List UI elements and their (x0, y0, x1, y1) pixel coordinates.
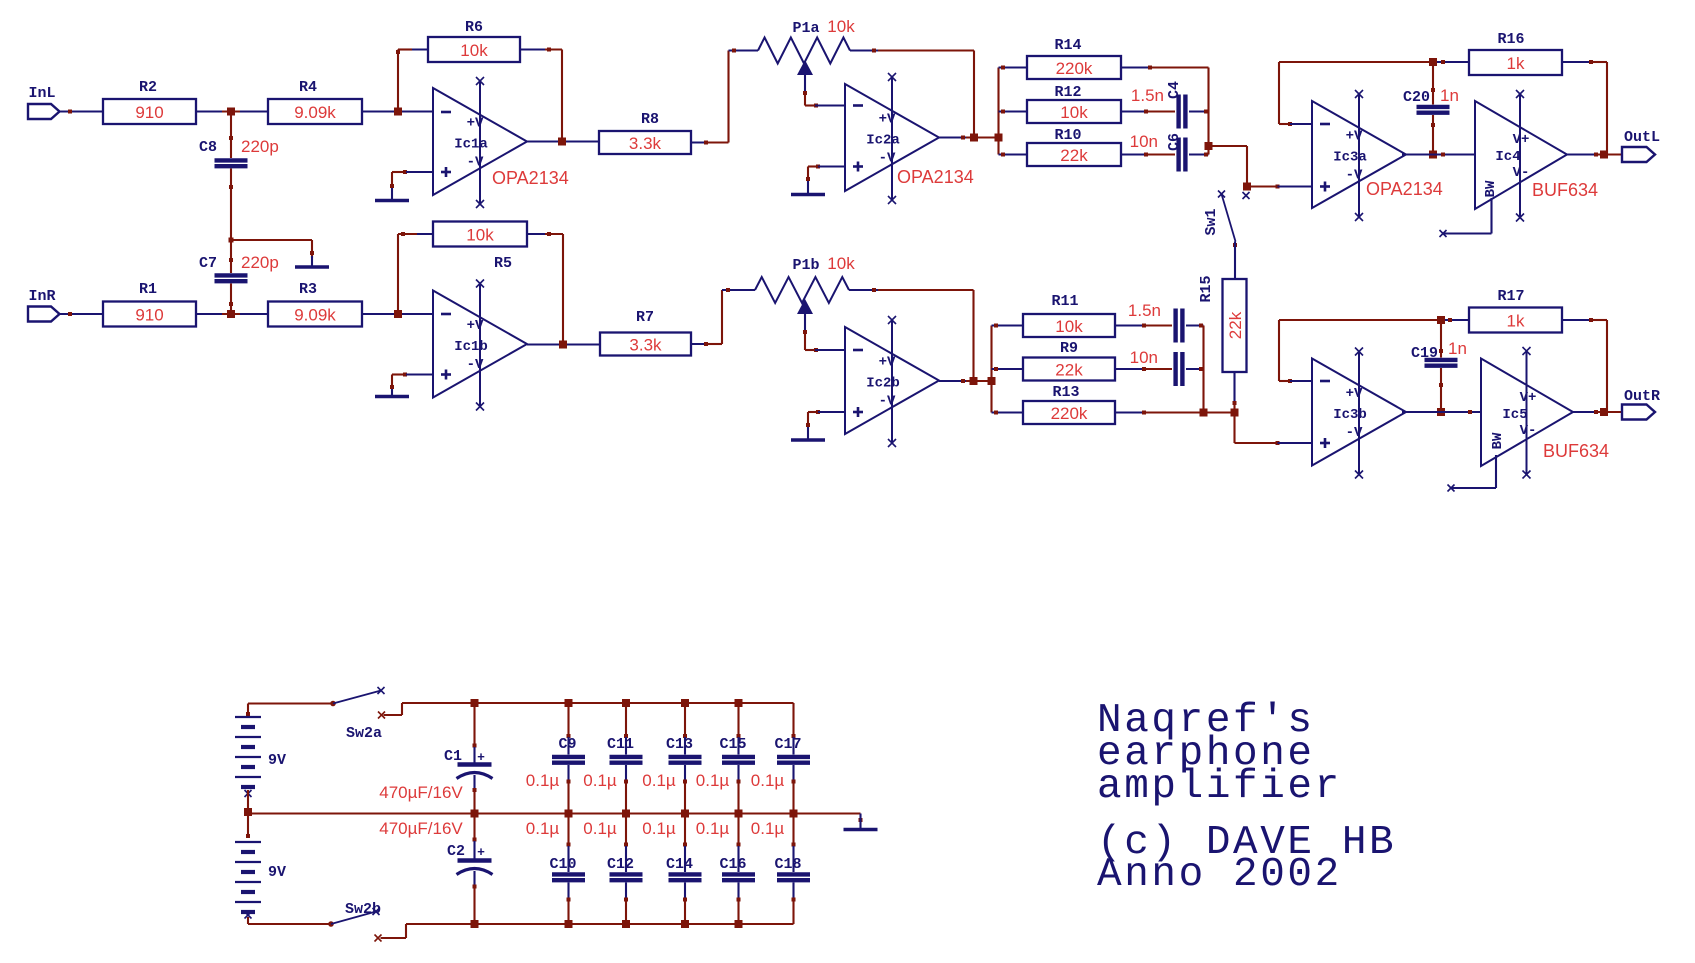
svg-text:-V: -V (879, 151, 896, 167)
svg-text:Ic1b: Ic1b (454, 339, 488, 355)
wire bus to R13 (992, 411, 1024, 415)
wire R2 to node L1 (196, 110, 268, 112)
svg-text:V+: V+ (1513, 132, 1530, 148)
connector InR (28, 288, 60, 322)
node R17 left junction (1437, 316, 1445, 324)
resistor R4 (268, 79, 362, 124)
svg-text:470µF/16V: 470µF/16V (379, 819, 463, 838)
value OPA2134 for Ic1 (492, 168, 569, 188)
op-amp Ic3b (1312, 348, 1406, 479)
switch Sw2a (330, 687, 385, 742)
wire R9 to cap 10n (1115, 367, 1172, 371)
svg-text:R8: R8 (641, 111, 659, 128)
svg-text:Ic5: Ic5 (1502, 407, 1527, 423)
wire Ic1a output (527, 140, 599, 142)
wire Ic3b output to Ic5 (1402, 410, 1481, 414)
wire B2 to Sw2b (248, 923, 331, 925)
capacitor C11 0.1u (583, 699, 642, 814)
svg-text:3.3k: 3.3k (629, 134, 662, 153)
svg-text:OPA2134: OPA2134 (1366, 179, 1443, 199)
value BUF634 for Ic5 (1543, 441, 1609, 461)
wire ground to Ic1a plus (392, 170, 433, 186)
wire C6 right (1189, 153, 1209, 157)
wire C7 to node R1 (229, 284, 233, 315)
resistor R7 (600, 309, 691, 356)
capacitor C2 470uF (379, 814, 492, 925)
wire ground to Ic2b plus (808, 410, 845, 425)
node Ic2a out junction (970, 134, 978, 142)
svg-text:Ic3b: Ic3b (1333, 407, 1367, 423)
node OutR junction (1600, 408, 1608, 416)
svg-text:+V: +V (1346, 129, 1363, 145)
svg-text:10k: 10k (827, 17, 855, 36)
node R16 left junction (1429, 58, 1437, 66)
wire R17 right feedback (1562, 318, 1607, 412)
capacitor C14 0.1u (642, 814, 701, 925)
node bottom rail col C16 (735, 920, 743, 928)
capacitor C16 0.1u (696, 814, 755, 925)
svg-text:910: 910 (135, 103, 163, 122)
wire Ic2b output (939, 379, 992, 383)
svg-text:C1: C1 (444, 748, 462, 765)
svg-text:0.1µ: 0.1µ (526, 771, 560, 790)
wire mid node to ground (229, 238, 315, 259)
svg-text:0.1µ: 0.1µ (642, 771, 676, 790)
svg-text:1k: 1k (1507, 54, 1525, 73)
capacitor C15 0.1u (696, 699, 755, 814)
svg-text:C16: C16 (719, 856, 746, 873)
wire C19 bottom (1439, 368, 1443, 412)
svg-text:Ic2a: Ic2a (866, 133, 900, 149)
svg-text:C19: C19 (1411, 345, 1438, 362)
svg-text:C15: C15 (719, 736, 746, 753)
wire bank L bus (997, 68, 999, 155)
wire mid rail (248, 812, 861, 814)
svg-text:Ic2b: Ic2b (866, 376, 900, 392)
wire R15 bottom (1233, 372, 1237, 413)
svg-text:R16: R16 (1497, 31, 1524, 48)
node R15 bottom junction (1231, 409, 1239, 417)
svg-text:-V: -V (1346, 168, 1363, 184)
value OPA2134 for Ic2 (897, 167, 974, 187)
svg-text:910: 910 (135, 306, 163, 325)
wire node to Ic3a plus (1247, 185, 1312, 189)
node R1 junction (227, 310, 235, 318)
wire R12 to C4 (1121, 110, 1175, 114)
wire bus to R10 (999, 153, 1028, 157)
wire R10 to C6 (1121, 153, 1175, 157)
wire P1a right to Ic2a output feedback (878, 51, 974, 138)
ground mid rail (844, 814, 878, 830)
wire Ic5 output (1573, 410, 1622, 414)
svg-text:R7: R7 (636, 309, 654, 326)
svg-text:OutL: OutL (1624, 129, 1660, 146)
svg-text:C10: C10 (549, 856, 576, 873)
svg-text:+V: +V (467, 318, 484, 334)
svg-text:OutR: OutR (1624, 388, 1660, 405)
svg-text:10k: 10k (827, 254, 855, 273)
wire junction to R17 (1445, 318, 1469, 322)
svg-text:C7: C7 (199, 255, 217, 272)
svg-text:C20: C20 (1403, 89, 1430, 106)
switch Sw2b (328, 901, 381, 942)
svg-text:220p: 220p (241, 137, 279, 156)
wire P1a wiper to Ic2a minus (805, 95, 845, 108)
svg-text:R15: R15 (1198, 275, 1215, 302)
ground at Ic2a plus (791, 177, 825, 195)
wire Sw1 to R15 (1234, 242, 1236, 280)
svg-text:amplifier: amplifier (1097, 764, 1342, 810)
wire R6 left feedback (396, 50, 428, 112)
svg-text:1k: 1k (1507, 312, 1525, 331)
svg-text:V-: V- (1520, 423, 1537, 439)
svg-text:Sw1: Sw1 (1203, 208, 1220, 235)
svg-text:Ic1a: Ic1a (454, 137, 488, 153)
wire R11 to cap 1.5n (1115, 324, 1172, 328)
wire R3 to Ic1b minus (362, 313, 433, 315)
Ic4 BW pin (1440, 198, 1492, 237)
svg-text:0.1µ: 0.1µ (583, 771, 617, 790)
wire corner to Ic3b plus (1235, 413, 1313, 446)
node bank L bus junction (995, 134, 1003, 142)
capacitor C6 (1130, 132, 1186, 172)
wire R14 right (1121, 66, 1209, 70)
resistor R1 (103, 281, 196, 327)
node bottom rail C2 junction (471, 920, 479, 928)
svg-text:220p: 220p (241, 253, 279, 272)
svg-text:V-: V- (1513, 165, 1530, 181)
svg-text:10k: 10k (1055, 317, 1083, 336)
svg-text:0.1µ: 0.1µ (526, 819, 560, 838)
svg-text:+: + (477, 845, 485, 860)
svg-text:InL: InL (28, 85, 55, 102)
wire bank R right bus (1202, 326, 1204, 413)
svg-text:+V: +V (879, 112, 896, 128)
svg-text:C6: C6 (1166, 133, 1183, 151)
resistor R10 (1027, 127, 1121, 166)
node Ic1a minus junction (394, 108, 402, 116)
ground near C7 (295, 256, 329, 267)
resistor R12 (1027, 84, 1121, 123)
value OPA2134 for Ic3 (1366, 179, 1443, 199)
wire InL to R2 (60, 110, 104, 114)
potentiometer P1b (722, 254, 878, 303)
P1a wiper (797, 60, 813, 95)
op-amp Ic3a (1312, 90, 1406, 221)
svg-text:R10: R10 (1054, 127, 1081, 144)
svg-text:10k: 10k (466, 226, 494, 245)
wire R1 to node R1 (196, 313, 268, 315)
wire Sw2b to bottom rail (381, 924, 407, 938)
svg-text:C14: C14 (666, 856, 693, 873)
node Ic1b out junction (559, 341, 567, 349)
resistor R14 (1027, 37, 1121, 79)
Ic5 BW pin (1448, 455, 1497, 492)
resistor R15 (1198, 275, 1247, 372)
svg-text:Sw2b: Sw2b (345, 901, 381, 918)
wire Ic3b minus feedback rail (1279, 320, 1437, 383)
svg-text:220k: 220k (1056, 59, 1093, 78)
svg-text:+: + (477, 750, 485, 765)
wire R5 left feedback (398, 232, 433, 314)
wire cap to bank R right bus upper (1186, 324, 1204, 328)
svg-text:+V: +V (879, 355, 896, 371)
svg-text:C18: C18 (774, 856, 801, 873)
capacitor C1 470uF (379, 703, 492, 814)
node Sw1 top junction (1243, 183, 1251, 191)
op-amp Ic2a (845, 73, 939, 204)
op-amp Ic1a (433, 77, 527, 208)
resistor R3 (268, 281, 362, 327)
svg-text:22k: 22k (1226, 311, 1245, 339)
wire C4 right (1189, 110, 1209, 114)
svg-text:3.3k: 3.3k (629, 336, 662, 355)
svg-text:R4: R4 (299, 79, 317, 96)
wire bottom rail (406, 923, 794, 925)
battery B1 9V (235, 704, 286, 813)
svg-text:0.1µ: 0.1µ (583, 819, 617, 838)
wire bus to R9 (992, 367, 1024, 371)
wire R8 to P1a (691, 51, 729, 145)
wire bank L right bus (1207, 68, 1209, 155)
svg-text:BW: BW (1490, 432, 1506, 449)
svg-text:P1a: P1a (792, 20, 819, 37)
wire ground to Ic1b plus (392, 373, 433, 388)
svg-text:BW: BW (1483, 180, 1499, 197)
node mid rail col C17 (790, 810, 798, 818)
capacitor C8 (199, 112, 279, 167)
svg-text:Sw2a: Sw2a (346, 725, 382, 742)
capacitor C17 0.1u (751, 703, 810, 814)
wire to Ic3b plus (1204, 411, 1235, 413)
svg-text:9V: 9V (268, 752, 286, 769)
node Ic2b out junction (970, 377, 978, 385)
svg-text:+V: +V (1346, 386, 1363, 402)
P1b wiper (797, 299, 813, 334)
wire Ic3a minus feedback rail (1279, 62, 1429, 126)
svg-text:Ic3a: Ic3a (1333, 150, 1367, 166)
svg-text:R2: R2 (139, 79, 157, 96)
capacitor C19 (1411, 320, 1467, 366)
svg-text:R13: R13 (1052, 384, 1079, 401)
buffer Ic5 BUF634 (1481, 347, 1573, 479)
resistor R9 (1023, 340, 1115, 381)
svg-text:R1: R1 (139, 281, 157, 298)
svg-text:10n: 10n (1130, 132, 1158, 151)
svg-text:R6: R6 (465, 19, 483, 36)
wire Ic1b output (527, 343, 600, 345)
node OutL junction (1600, 151, 1608, 159)
svg-text:1n: 1n (1448, 339, 1467, 358)
wire C20 bottom (1431, 115, 1435, 155)
connector InL (28, 85, 60, 119)
resistor R13 (1023, 384, 1115, 424)
svg-text:C11: C11 (607, 736, 634, 753)
svg-text:BUF634: BUF634 (1532, 180, 1598, 200)
svg-text:-V: -V (1346, 425, 1363, 441)
svg-text:10k: 10k (460, 41, 488, 60)
svg-text:0.1µ: 0.1µ (642, 819, 676, 838)
resistor R16 (1469, 31, 1562, 75)
resistor R17 (1469, 288, 1562, 333)
svg-text:10n: 10n (1130, 348, 1158, 367)
svg-text:0.1µ: 0.1µ (696, 819, 730, 838)
resistor R5 (433, 222, 527, 273)
capacitor C20 (1403, 62, 1459, 113)
wire bus to R14 (999, 66, 1028, 70)
node L1 junction (227, 108, 235, 116)
title text (1097, 698, 1396, 898)
node bottom rail col C12 (622, 920, 630, 928)
wire R16 right feedback (1562, 60, 1607, 155)
svg-text:220k: 220k (1051, 404, 1088, 423)
svg-text:C9: C9 (558, 736, 576, 753)
op-amp Ic2b (845, 316, 939, 447)
wire C8 to C7 node (229, 169, 233, 241)
op-amp Ic1b (433, 280, 527, 411)
capacitor C18 0.1u (751, 814, 810, 925)
svg-text:R9: R9 (1060, 340, 1078, 357)
node bank R right junction (1200, 409, 1208, 417)
capacitor 10n lower (1130, 348, 1183, 386)
svg-text:10k: 10k (1060, 103, 1088, 122)
wire bus to R12 (999, 110, 1028, 114)
battery B2 9V (235, 812, 286, 924)
wire Ic2a output (939, 136, 999, 140)
resistor R6 (428, 19, 520, 62)
svg-text:OPA2134: OPA2134 (492, 168, 569, 188)
resistor R8 (599, 111, 691, 154)
svg-text:470µF/16V: 470µF/16V (379, 783, 463, 802)
svg-text:R5: R5 (494, 255, 512, 272)
svg-text:Ic4: Ic4 (1495, 149, 1520, 165)
svg-text:R14: R14 (1054, 37, 1081, 54)
capacitor C9 0.1u (526, 699, 585, 814)
switch Sw1 (1203, 191, 1250, 248)
buffer Ic4 BUF634 (1475, 90, 1567, 222)
svg-text:9.09k: 9.09k (294, 306, 336, 325)
capacitor C13 0.1u (642, 699, 701, 814)
potentiometer P1a (729, 17, 879, 64)
svg-text:1.5n: 1.5n (1128, 301, 1161, 320)
wire R7 to P1b (691, 290, 722, 346)
wire Ic3a output to Ic4 (1402, 153, 1475, 157)
node mid rail col C11 (622, 810, 630, 818)
node bank R bus junction (988, 377, 996, 385)
connector OutR (1622, 388, 1660, 420)
svg-text:22k: 22k (1060, 146, 1088, 165)
svg-text:InR: InR (28, 288, 55, 305)
wire Ic4 output (1567, 153, 1622, 157)
svg-text:0.1µ: 0.1µ (751, 819, 785, 838)
node top rail C1 junction (471, 699, 479, 707)
svg-text:0.1µ: 0.1µ (751, 771, 785, 790)
capacitor C7 (199, 240, 279, 281)
wire InR to R1 (60, 312, 104, 316)
node Ic1a out junction (558, 138, 566, 146)
svg-text:BUF634: BUF634 (1543, 441, 1609, 461)
ground at Ic2b plus (791, 423, 825, 440)
node mid rail col C15 (735, 810, 743, 818)
node battery mid junction (244, 808, 252, 816)
svg-text:V+: V+ (1520, 390, 1537, 406)
resistor R2 (103, 79, 196, 124)
wire bank R bus (990, 326, 992, 413)
capacitor C4 (1131, 81, 1185, 129)
node bottom rail col C14 (681, 920, 689, 928)
node mid rail col C13 (681, 810, 689, 818)
node Ic3a out junction (1429, 151, 1437, 159)
wire to Ic3a plus corner (1209, 146, 1248, 187)
svg-text:C12: C12 (607, 856, 634, 873)
capacitor C10 0.1u (526, 814, 585, 925)
svg-text:R17: R17 (1497, 288, 1524, 305)
svg-text:C17: C17 (774, 736, 801, 753)
svg-text:C8: C8 (199, 139, 217, 156)
svg-text:P1b: P1b (792, 257, 819, 274)
node bank L right junction (1205, 142, 1213, 150)
resistor R11 (1023, 293, 1115, 337)
capacitor 1.5n lower (1128, 301, 1182, 343)
wire R4 to Ic1a minus (362, 110, 433, 112)
svg-text:Anno 2002: Anno 2002 (1097, 852, 1342, 898)
wire P1b right to Ic2b output feedback (878, 290, 974, 381)
svg-text:R11: R11 (1051, 293, 1078, 310)
svg-text:1n: 1n (1440, 86, 1459, 105)
wire bus to R11 (992, 324, 1024, 328)
wire B1 to Sw2a (248, 702, 333, 704)
svg-text:-V: -V (879, 394, 896, 410)
wire R6 right feedback (520, 48, 562, 142)
svg-text:C2: C2 (447, 843, 465, 860)
node mid rail C1 junction (471, 810, 479, 818)
svg-text:C13: C13 (666, 736, 693, 753)
ground at Ic1a plus (375, 184, 409, 201)
svg-text:R3: R3 (299, 281, 317, 298)
wire ground to Ic2a plus (808, 165, 845, 180)
wire cap to bank R right bus lower (1186, 367, 1204, 371)
wire junction to R16 (1437, 60, 1469, 64)
svg-text:1.5n: 1.5n (1131, 86, 1164, 105)
connector OutL (1622, 129, 1660, 162)
svg-text:-V: -V (467, 155, 484, 171)
node Ic3b out junction (1437, 408, 1445, 416)
node mid rail col C9 (565, 810, 573, 818)
ground at Ic1b plus (375, 385, 409, 397)
value BUF634 for Ic4 (1532, 180, 1598, 200)
svg-text:R12: R12 (1054, 84, 1081, 101)
wire R13 right (1115, 411, 1204, 415)
svg-text:C4: C4 (1166, 81, 1183, 99)
capacitor C12 0.1u (583, 814, 642, 925)
svg-text:22k: 22k (1055, 361, 1083, 380)
svg-text:9V: 9V (268, 864, 286, 881)
node bottom rail col C10 (565, 920, 573, 928)
wire top rail (402, 702, 794, 704)
svg-text:+V: +V (467, 116, 484, 132)
svg-text:9.09k: 9.09k (294, 103, 336, 122)
svg-text:OPA2134: OPA2134 (897, 167, 974, 187)
svg-text:-V: -V (467, 357, 484, 373)
node Ic1b minus junction (394, 310, 402, 318)
wire P1b wiper to Ic2b minus (805, 334, 845, 352)
svg-text:0.1µ: 0.1µ (696, 771, 730, 790)
wire R5 right feedback (527, 232, 563, 345)
wire Sw2a to top rail (384, 703, 403, 715)
